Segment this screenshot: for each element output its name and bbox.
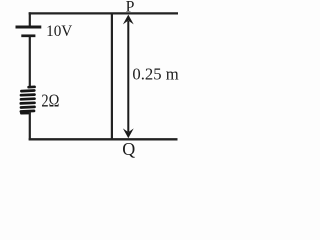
wire left upper (corner to battery) xyxy=(29,12,31,26)
arrowhead up at P xyxy=(123,15,134,25)
wire left lower (resistor to bottom rail) xyxy=(29,112,31,140)
svg-text:2Ω: 2Ω xyxy=(41,91,59,111)
wire top (P rail) xyxy=(29,12,178,14)
svg-text:0.25 m: 0.25 m xyxy=(132,64,178,83)
svg-text:10V: 10V xyxy=(46,23,73,40)
svg-text:Q: Q xyxy=(122,139,135,159)
battery 10V negative plate xyxy=(21,34,35,37)
dimension arrow shaft P-Q xyxy=(127,21,129,132)
resistor R 2-ohm coil xyxy=(21,87,35,113)
battery 10V positive plate xyxy=(16,26,42,29)
wire right (closing the loop) xyxy=(111,13,113,139)
wire bottom (Q rail) xyxy=(29,138,178,140)
wire left middle (battery to resistor) xyxy=(29,37,31,88)
svg-text:P: P xyxy=(126,0,135,16)
arrowhead down at Q xyxy=(123,128,134,138)
